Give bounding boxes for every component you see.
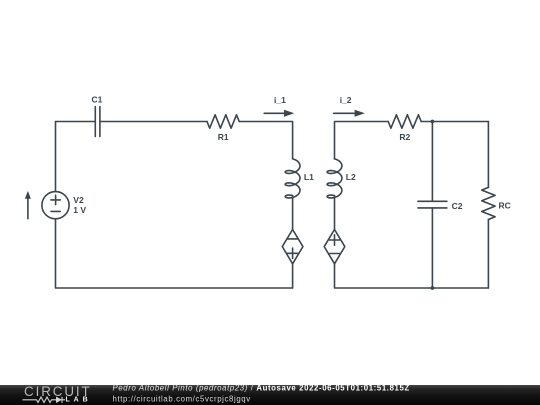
resistor R1 (207, 115, 239, 128)
resistor RC (482, 122, 495, 289)
voltage source V2 (42, 192, 69, 219)
inductor L1 (285, 159, 300, 198)
wire (421, 121, 488, 123)
wire (335, 264, 489, 288)
svg-text:RC: RC (499, 200, 511, 210)
dependent source B2 (diamond) (324, 230, 345, 264)
wire (335, 122, 389, 159)
svg-text:LAB: LAB (66, 397, 92, 404)
inductor L2 (327, 159, 342, 198)
wire (56, 121, 96, 123)
resistor R2 (388, 115, 421, 128)
capacitor C1 (95, 107, 100, 137)
svg-text:1 V: 1 V (73, 205, 86, 215)
svg-text:R2: R2 (399, 132, 410, 142)
svg-text:V2: V2 (73, 195, 84, 205)
svg-text:C1: C1 (92, 95, 103, 105)
dependent source B1 (diamond) (282, 230, 303, 264)
svg-text:R1: R1 (218, 132, 229, 142)
svg-text:i_1: i_1 (274, 95, 286, 105)
capacitor C2 (418, 122, 447, 289)
svg-text:L2: L2 (346, 172, 356, 182)
svg-text:i_2: i_2 (340, 95, 352, 105)
svg-text:L1: L1 (304, 172, 314, 182)
wire (334, 196, 336, 230)
wire (55, 122, 57, 192)
wire (56, 219, 293, 288)
wire (239, 122, 292, 159)
node junction top (431, 120, 435, 124)
CircuitLab logo (23, 384, 92, 404)
orientation arrow (25, 191, 31, 219)
wire (292, 196, 294, 230)
wire (292, 264, 294, 288)
current arrow i_1 (264, 110, 294, 117)
svg-text:C2: C2 (452, 201, 463, 211)
current arrow i_2 (334, 110, 365, 117)
svg-text:Pedro Altobell Pinto (pedroatp: Pedro Altobell Pinto (pedroatp23) / Auto… (113, 383, 410, 392)
wire (100, 121, 207, 123)
svg-text:http://circuitlab.com/c5vcrpjc: http://circuitlab.com/c5vcrpjc8jgqv (113, 394, 251, 403)
node junction bottom (431, 286, 435, 290)
